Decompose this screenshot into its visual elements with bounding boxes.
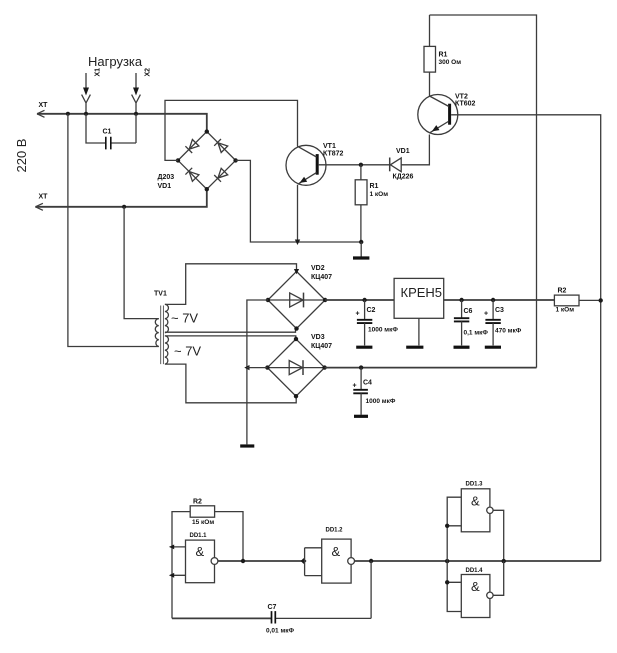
- svg-text:КЦ407: КЦ407: [311, 274, 332, 281]
- bridge VD1 diode bottom-left: [185, 168, 199, 182]
- node C6 junction: [459, 298, 463, 302]
- transformer TV1 secondary winding lower: [165, 336, 169, 364]
- wire DC rail KREN5 output: [444, 299, 555, 301]
- terminal XT upper arrow: [37, 110, 45, 117]
- bridge VD1 diode bottom-right: [214, 168, 228, 182]
- wire VT1 base: [319, 164, 390, 166]
- bridge VD1 diamond: [178, 132, 236, 190]
- wire DD1.3 input vertical: [447, 497, 461, 561]
- svg-text:DD1.3: DD1.3: [466, 482, 484, 488]
- voltage regulator U1 КРЕН5: [394, 278, 444, 318]
- gate DD1.2: [322, 539, 355, 583]
- svg-text:КРЕН5: КРЕН5: [401, 285, 443, 300]
- node R2 output junction: [241, 559, 245, 563]
- node R1 top junction: [359, 163, 363, 167]
- svg-text:&: &: [471, 494, 480, 509]
- node DD1.3 inputs junction top: [445, 559, 449, 563]
- svg-text:R2: R2: [558, 288, 567, 295]
- svg-text:220 В: 220 В: [14, 139, 29, 173]
- svg-text:КД226: КД226: [393, 174, 414, 181]
- node C3 junction: [491, 298, 495, 302]
- wire VT2 collector up to R1 300: [429, 15, 431, 96]
- capacitor C6: [454, 300, 470, 347]
- svg-text:C1: C1: [103, 129, 112, 136]
- svg-text:VD2: VD2: [311, 265, 325, 272]
- wire VT1 emitter down: [297, 185, 299, 242]
- svg-text:&: &: [332, 544, 341, 559]
- connector pin X2 (arrow into socket): [132, 73, 141, 114]
- node R2 right junction: [599, 298, 603, 302]
- gate DD1.3: [461, 489, 493, 532]
- node VD1 bottom vertex: [205, 187, 209, 191]
- ground below VD2 minus: [240, 444, 254, 447]
- wire R1 leads: [360, 165, 362, 242]
- svg-text:DD1.2: DD1.2: [326, 528, 344, 534]
- wire DD1.3 output: [493, 510, 504, 561]
- resistor R1 300 Om body: [424, 46, 436, 72]
- wire DD1.1 output to DD1.2 inputs: [218, 560, 305, 562]
- diode VD1 КД226: [390, 158, 402, 172]
- wire R2 right down to gate output wire: [215, 512, 243, 561]
- svg-text:+: +: [356, 311, 360, 318]
- wire DD1.4 output: [493, 561, 504, 595]
- capacitor C4: [353, 368, 368, 417]
- node VD3 top vertex: [294, 337, 298, 341]
- svg-text:&: &: [196, 544, 205, 559]
- wire VT2 base to right column: [451, 115, 601, 561]
- wire DC rail VD2 to KREN5: [325, 299, 394, 301]
- node VD2 right vertex: [323, 298, 327, 302]
- node VD1 right vertex: [233, 158, 237, 162]
- resistor R2 15kOm body: [190, 506, 214, 517]
- bridge VD3 inner diode: [267, 360, 324, 375]
- svg-text:XT: XT: [39, 194, 49, 201]
- node outputs junction: [502, 559, 506, 563]
- wire top rail to right column: [430, 15, 537, 368]
- svg-text:X2: X2: [145, 68, 152, 77]
- node VD2 bottom vertex: [294, 326, 298, 330]
- node DD1.4 input1 junction: [445, 580, 449, 584]
- resistor R2 1kOm body: [554, 295, 579, 306]
- wire VD3 left vertex to vertical: [247, 367, 268, 369]
- node C4 junction: [359, 365, 363, 369]
- wire secondary2 bottom to VD3 bottom: [165, 364, 296, 403]
- gate DD1.4: [461, 575, 493, 618]
- svg-text:VT1: VT1: [323, 143, 336, 150]
- resistor R1 1kOm body: [355, 180, 367, 205]
- ground below R1: [360, 242, 362, 257]
- svg-text:1000 мкФ: 1000 мкФ: [368, 327, 398, 334]
- wire secondary1 top to VD2 top: [165, 264, 297, 305]
- svg-text:КТ872: КТ872: [323, 151, 344, 158]
- svg-text:VT2: VT2: [455, 94, 468, 101]
- gate DD1.1 input wires: [172, 547, 186, 575]
- svg-text:C7: C7: [268, 604, 277, 611]
- wire KREN5 ground pin: [418, 318, 420, 345]
- svg-text:C4: C4: [363, 380, 372, 387]
- ground below KREN5: [406, 346, 423, 349]
- wire C7 right leg: [276, 561, 372, 618]
- svg-text:DD1.1: DD1.1: [190, 533, 208, 539]
- svg-text:&: &: [471, 579, 480, 594]
- svg-text:C6: C6: [464, 308, 473, 315]
- wire R2 to right column: [579, 299, 601, 301]
- svg-text:470 мкФ: 470 мкФ: [495, 328, 522, 335]
- svg-text:C2: C2: [367, 307, 376, 314]
- node VD3 left vertex: [265, 365, 269, 369]
- wire VD2 left vertex down to ground: [247, 300, 268, 444]
- capacitor C3: [485, 300, 501, 347]
- node C2 junction: [362, 298, 366, 302]
- bridge VD1 diode top-left: [185, 139, 199, 153]
- wire DD1.2 output to NAND pair inputs: [355, 560, 601, 562]
- gate DD1.1: [186, 540, 218, 583]
- transistor VT2: [418, 95, 458, 135]
- svg-text:КЦ407: КЦ407: [311, 343, 332, 350]
- wire primary feed right (to transformer top terminal): [124, 207, 159, 319]
- node VD1 top vertex: [205, 129, 209, 133]
- svg-text:300 Ом: 300 Ом: [439, 59, 462, 66]
- svg-text:0,1 мкФ: 0,1 мкФ: [464, 330, 489, 337]
- transformer TV1 primary winding: [155, 319, 158, 347]
- node arrow junction DD1.1 input2: [169, 573, 174, 578]
- svg-text:Нагрузка: Нагрузка: [88, 54, 143, 69]
- node C7 top junction: [369, 559, 373, 563]
- capacitor C7: [272, 611, 276, 623]
- transformer TV1 secondary winding upper: [165, 304, 169, 332]
- svg-text:1 кОм: 1 кОм: [370, 191, 389, 198]
- transistor VT1: [286, 145, 326, 185]
- wire secondary2 top to VD3 top: [165, 336, 296, 339]
- wire primary feed left (to transformer bottom terminal): [68, 114, 159, 347]
- svg-text:R2: R2: [193, 499, 202, 506]
- svg-text:+: +: [353, 383, 357, 390]
- bridge VD2 inner diode: [268, 293, 325, 308]
- wire VD3 right vertex to right column: [325, 367, 537, 369]
- node arrow junction DD1.1 input1: [169, 545, 174, 550]
- wire DD1.4 input vertical: [447, 561, 461, 611]
- node VD2 top vertex: [294, 269, 299, 274]
- wire R2 left to feedback vertical: [172, 512, 190, 619]
- node R1 bottom junction: [359, 240, 363, 244]
- node junction dot x=86 on upper rail: [84, 112, 88, 116]
- wire mains lower rail to bridge bottom: [35, 189, 206, 207]
- wire mains upper rail to bridge top: [37, 114, 207, 132]
- svg-text:~ 7V: ~ 7V: [174, 344, 201, 359]
- node DD1.3 input2 junction: [445, 524, 449, 528]
- node junction dot x=124.1 on lower rail: [122, 205, 126, 209]
- terminal XT lower arrow: [35, 203, 43, 210]
- node junction VD3 left to vertical: [244, 365, 249, 370]
- svg-text:X1: X1: [95, 68, 102, 77]
- node VD1 left vertex: [176, 158, 180, 162]
- capacitor C2: [356, 300, 372, 347]
- svg-text:R1: R1: [370, 183, 379, 190]
- svg-text:TV1: TV1: [154, 291, 167, 298]
- svg-text:VD3: VD3: [311, 334, 325, 341]
- bridge VD1 diode top-right: [214, 139, 228, 153]
- svg-text:Д203: Д203: [158, 174, 175, 181]
- wire DD1.2 input pair: [305, 548, 322, 576]
- wire diode to VT2 emitter: [401, 135, 429, 165]
- bridge VD2 diamond: [268, 271, 325, 328]
- node VD2 left vertex: [266, 298, 270, 302]
- svg-text:VD1: VD1: [396, 148, 410, 155]
- bridge VD3 diamond: [267, 339, 324, 396]
- svg-text:+: +: [484, 311, 488, 318]
- transformer TV1 core: [161, 306, 164, 365]
- wire secondary1 bottom to VD2 bottom: [165, 329, 296, 333]
- svg-text:0,01 мкФ: 0,01 мкФ: [266, 628, 295, 635]
- capacitor C1: [86, 114, 136, 150]
- svg-text:1000 мкФ: 1000 мкФ: [366, 398, 396, 405]
- svg-text:1 кОм: 1 кОм: [556, 307, 575, 314]
- node VT1 emitter on rail: [295, 240, 300, 246]
- svg-text:DD1.4: DD1.4: [466, 568, 484, 574]
- svg-text:R1: R1: [439, 52, 448, 59]
- node junction dot x=136 on upper rail: [134, 112, 138, 116]
- connector pin X1 (arrow into socket): [82, 73, 91, 114]
- wire VD1 right vertex down to emitter rail: [236, 160, 362, 242]
- node junction dot x=67.9 on upper rail: [66, 112, 70, 116]
- wire VD1 left vertex to VT1 collector: [165, 100, 298, 160]
- svg-text:C3: C3: [495, 307, 504, 314]
- svg-text:XT: XT: [39, 102, 49, 109]
- node VD3 right vertex: [322, 365, 326, 369]
- node DD1.2 input junction: [301, 558, 307, 564]
- svg-text:VD1: VD1: [158, 183, 172, 190]
- svg-text:~ 7V: ~ 7V: [171, 311, 198, 326]
- wire C7 left leg: [172, 617, 271, 619]
- node VD3 bottom vertex: [294, 394, 298, 398]
- svg-text:15 кОм: 15 кОм: [192, 519, 214, 526]
- svg-text:КТ602: КТ602: [455, 101, 476, 108]
